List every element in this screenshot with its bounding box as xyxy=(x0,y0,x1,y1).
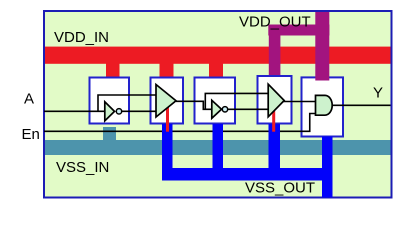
VDD_IN power rail xyxy=(45,47,391,64)
cell U3 box xyxy=(195,78,236,124)
VSS_OUT stub below cell U3 xyxy=(213,124,224,170)
VDD_IN stub to cell U3 xyxy=(209,63,223,78)
VSS_OUT vertical below cell U5 xyxy=(322,137,333,198)
svg-text:En: En xyxy=(22,126,40,143)
VDD_OUT wire vertical into cell U4 xyxy=(269,25,281,76)
power tap red in cell U4 xyxy=(272,111,275,132)
VDD_OUT wire horizontal segment xyxy=(268,25,329,36)
VSS_OUT stub below cell U4 xyxy=(269,124,281,170)
svg-text:A: A xyxy=(24,90,34,107)
wire U5 gate output to port Y xyxy=(332,104,391,106)
wire U4 output to U5 gate xyxy=(283,101,316,103)
VSS_OUT horizontal bar xyxy=(162,168,333,181)
wire U2 output to U3 with jog down xyxy=(176,101,212,109)
wire U3 tee branch up xyxy=(205,93,268,109)
cell U1 box xyxy=(90,78,130,124)
inverter U1 bubble xyxy=(116,109,121,114)
svg-text:VSS_OUT: VSS_OUT xyxy=(245,180,315,197)
svg-text:VDD_OUT: VDD_OUT xyxy=(239,13,311,30)
VSS_OUT stub below cell U2 xyxy=(162,124,173,170)
wire U1 inverter output to U2 xyxy=(122,110,157,112)
schematic boundary box xyxy=(44,11,392,198)
cell U5 box xyxy=(302,77,344,136)
cell U4 box xyxy=(258,76,292,124)
VDD_IN stub to cell U1 xyxy=(106,63,120,78)
VDD_OUT wire vertical into cell U5 xyxy=(315,12,329,81)
VSS_IN stub to cell U1 xyxy=(103,127,116,141)
buffer triangle U2 xyxy=(156,85,176,118)
cell U2 box xyxy=(151,78,184,124)
inverter U3 triangle xyxy=(212,100,222,118)
wire input En xyxy=(44,114,316,132)
power tap red in cell U2 xyxy=(166,107,169,132)
wire U1 tee branch up xyxy=(98,95,156,111)
wire U3 inverter output to U4 xyxy=(228,108,268,110)
VSS_IN power rail xyxy=(45,140,391,155)
inverter U3 bubble xyxy=(222,107,227,112)
svg-text:VSS_IN: VSS_IN xyxy=(56,159,109,176)
svg-text:Y: Y xyxy=(373,85,383,102)
buffer triangle U4 xyxy=(268,84,284,117)
VDD_IN stub to cell U2 xyxy=(160,63,174,78)
wire input A xyxy=(44,110,105,112)
inverter U1 triangle xyxy=(105,102,115,121)
svg-text:VDD_IN: VDD_IN xyxy=(54,29,109,46)
AND gate U5 xyxy=(316,95,333,115)
